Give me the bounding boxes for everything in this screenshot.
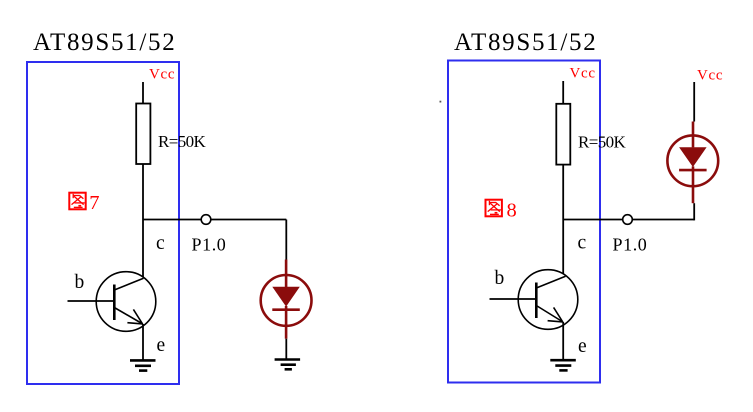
LED D2 cathode bar bbox=[679, 169, 707, 172]
svg-text:Vcc: Vcc bbox=[149, 67, 175, 83]
figure label 图7 glyph 图 (drawn) bbox=[69, 193, 85, 210]
LED D2 cathode lead (dark red) bbox=[692, 166, 695, 203]
ground symbol (LED D1) bbox=[275, 358, 301, 361]
svg-text:R=50K: R=50K bbox=[158, 132, 207, 151]
LED D1 cathode bar bbox=[272, 308, 300, 311]
svg-text:AT89S51/52: AT89S51/52 bbox=[454, 29, 597, 56]
svg-text:7: 7 bbox=[89, 192, 99, 214]
transistor Q1 body circle bbox=[96, 272, 156, 332]
svg-text:b: b bbox=[495, 268, 505, 289]
svg-text:Vcc: Vcc bbox=[570, 66, 596, 82]
transistor Q1 collector stroke bbox=[114, 278, 143, 290]
svg-text:Vcc: Vcc bbox=[697, 68, 723, 84]
transistor Q2 emitter stroke with arrow bbox=[536, 306, 563, 323]
svg-text:P1.0: P1.0 bbox=[192, 235, 227, 255]
wire Vcc to resistor R2 bbox=[562, 81, 564, 104]
wire base lead (right) bbox=[490, 298, 537, 300]
wire node to LED branch (horizontal) bbox=[143, 219, 286, 221]
resistor R2 (R=50K) body bbox=[556, 104, 570, 165]
svg-text:P1.0: P1.0 bbox=[613, 235, 648, 255]
svg-text:e: e bbox=[157, 335, 166, 356]
wire base lead (left) bbox=[68, 300, 115, 302]
LED D1 circle bbox=[261, 275, 312, 326]
svg-text:8: 8 bbox=[507, 200, 517, 222]
wire resistor R1 to transistor collector bbox=[142, 164, 144, 278]
svg-text:c: c bbox=[156, 233, 165, 254]
svg-text:e: e bbox=[578, 336, 587, 357]
LED D1 branch wire down (black upper) bbox=[285, 220, 287, 260]
transistor Q1 base bar bbox=[113, 285, 116, 321]
svg-text:c: c bbox=[578, 233, 587, 254]
wire emitter to ground (left) bbox=[142, 324, 144, 360]
transistor Q2 collector stroke bbox=[536, 276, 565, 288]
LED D2 circle bbox=[667, 135, 718, 186]
MCU box (left, blue) bbox=[27, 62, 179, 384]
transistor Q1 emitter stroke with arrow bbox=[114, 308, 143, 325]
node P1.0 terminal circle (left) bbox=[201, 215, 211, 225]
LED D2 anode lead (dark red) bbox=[692, 122, 695, 148]
svg-text:b: b bbox=[75, 272, 85, 293]
wire Vcc to LED D2 (black upper) bbox=[693, 82, 695, 122]
ground symbol (transistor Q1 emitter) bbox=[130, 359, 156, 362]
LED D1 cathode lead (dark red) bbox=[285, 306, 288, 339]
node P1.0 terminal circle (right) bbox=[623, 215, 633, 225]
figure label 图8 glyph 图 (drawn) bbox=[486, 200, 502, 217]
ground symbol (transistor Q2 emitter) bbox=[550, 359, 576, 362]
resistor R1 (R=50K) body bbox=[136, 104, 150, 165]
stray dot artifact bbox=[440, 101, 442, 103]
wire Vcc to resistor R1 bbox=[142, 82, 144, 104]
wire node to LED branch (horizontal, right) bbox=[563, 219, 694, 221]
wire LED D1 to ground (black) bbox=[285, 339, 287, 359]
LED D1 triangle (anode) bbox=[272, 287, 300, 307]
wire resistor R2 to transistor collector bbox=[562, 165, 564, 277]
svg-text:AT89S51/52: AT89S51/52 bbox=[33, 29, 176, 56]
LED D2 triangle (anode) bbox=[679, 147, 707, 167]
transistor Q2 body circle bbox=[518, 270, 578, 330]
LED D1 anode lead (dark red) bbox=[285, 260, 288, 288]
svg-text:R=50K: R=50K bbox=[578, 132, 627, 151]
MCU box (right, blue) bbox=[448, 61, 600, 383]
transistor Q2 base bar bbox=[535, 283, 538, 319]
wire LED D2 to node (black, down then left) bbox=[693, 203, 695, 220]
wire emitter to ground (right) bbox=[562, 322, 564, 360]
